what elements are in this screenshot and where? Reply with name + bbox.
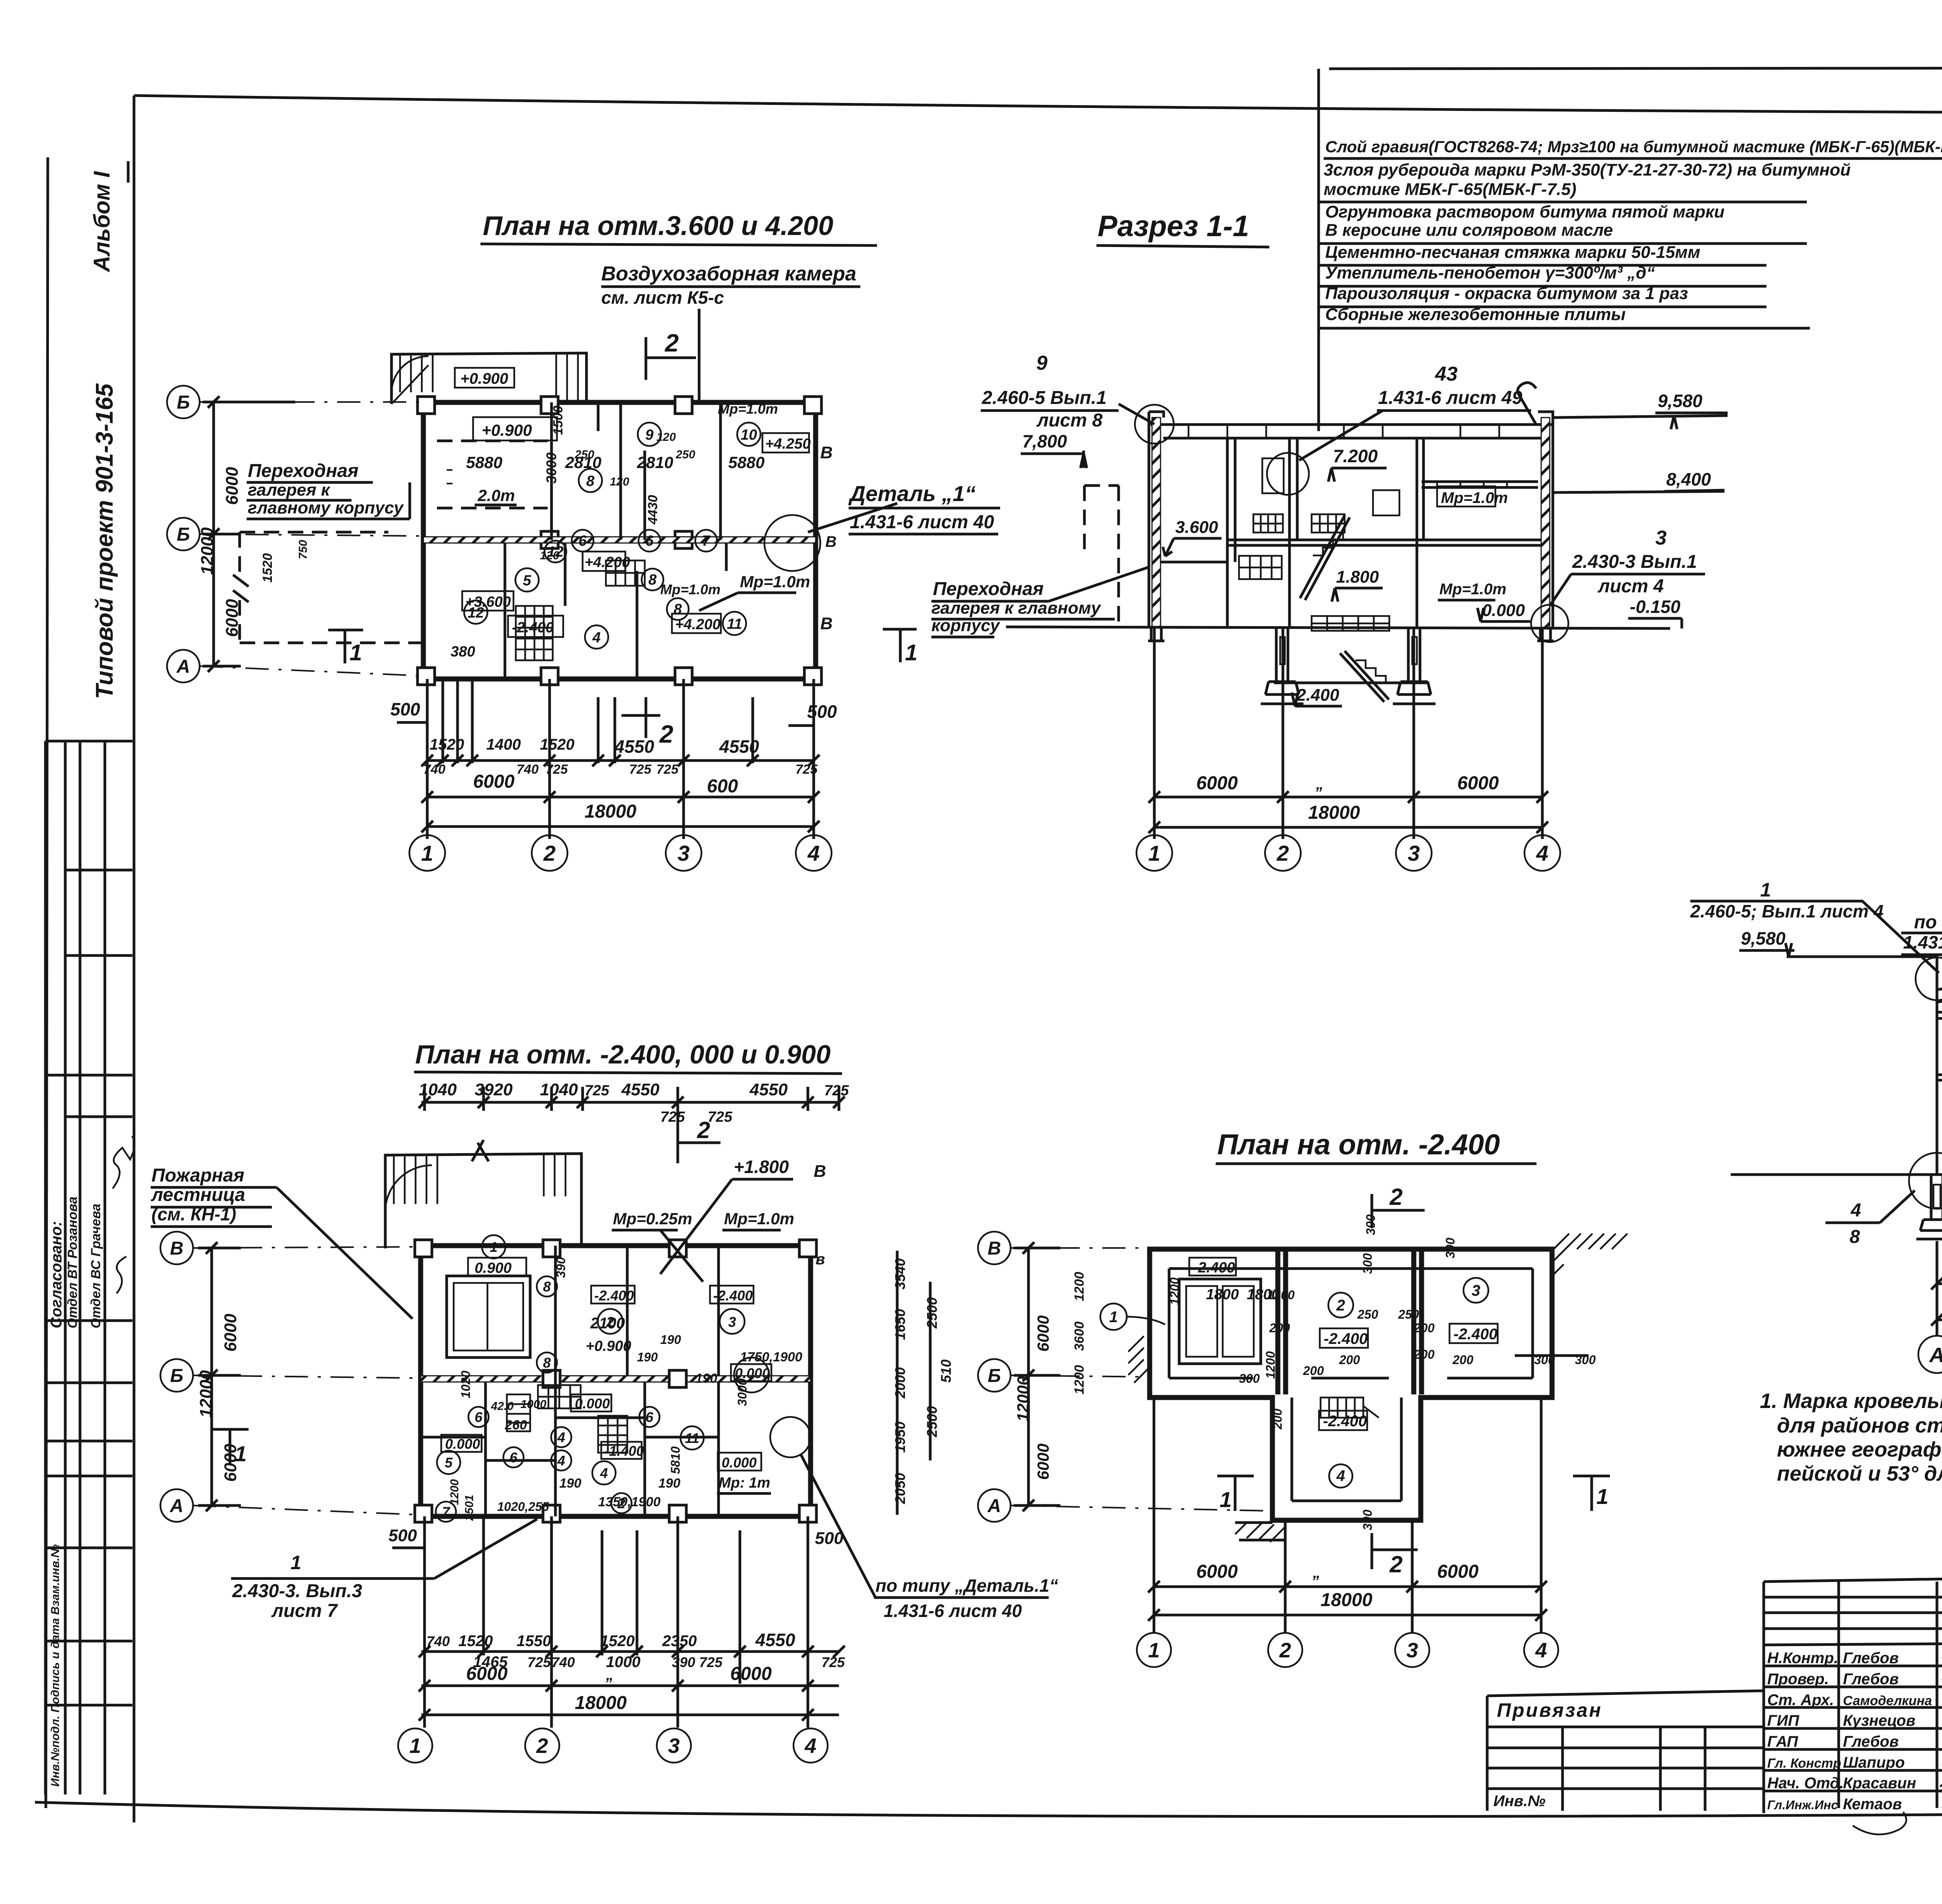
svg-text:Мр: 1т: Мр: 1т xyxy=(719,1475,770,1491)
svg-text:2350: 2350 xyxy=(662,1632,697,1650)
svg-text:750: 750 xyxy=(297,540,310,559)
stair annex xyxy=(392,353,586,404)
svg-text:2.430-3 Вып.1: 2.430-3 Вып.1 xyxy=(1572,552,1697,572)
name rows xyxy=(1764,1666,1942,1791)
svg-text:лист 8: лист 8 xyxy=(1036,410,1103,431)
svg-text:3600: 3600 xyxy=(1072,1321,1087,1351)
section mark 2 top xyxy=(1372,1194,1425,1228)
bottom dims xyxy=(1937,1241,1942,1336)
building walls xyxy=(1937,957,1942,1175)
svg-text:9,580: 9,580 xyxy=(1741,928,1786,949)
svg-text:1200: 1200 xyxy=(1072,1365,1087,1394)
svg-text:пейской и 53° для азиатской: пейской и 53° для азиатской частей СССР xyxy=(1777,1462,1942,1485)
svg-text:300: 300 xyxy=(1361,1509,1375,1530)
svg-text:Мр=0.25т: Мр=0.25т xyxy=(613,1210,692,1228)
svg-text:1020,255: 1020,255 xyxy=(497,1500,550,1514)
svg-text:Гл. Констр: Гл. Констр xyxy=(1767,1756,1841,1771)
svg-text:600: 600 xyxy=(707,776,738,797)
svg-text:Воздухозаборная камера: Воздухозаборная камера xyxy=(601,263,856,285)
roof slab xyxy=(1150,425,1554,438)
svg-text:3: 3 xyxy=(728,1314,736,1330)
svg-text:-2.400: -2.400 xyxy=(1193,1260,1235,1276)
svg-text:Переходная: Переходная xyxy=(248,461,358,481)
svg-text:500: 500 xyxy=(388,1526,417,1545)
svg-text:Б: Б xyxy=(988,1366,1001,1386)
svg-text:Цементно-песчаная стяжка марки: Цементно-песчаная стяжка марки 50-15мм xyxy=(1325,243,1700,262)
svg-text:Б: Б xyxy=(177,392,190,413)
svg-text:18000: 18000 xyxy=(1308,802,1360,823)
svg-text:3: 3 xyxy=(1406,1639,1418,1662)
svg-text:2050: 2050 xyxy=(892,1473,908,1504)
svg-text:6: 6 xyxy=(510,1450,518,1465)
svg-text:725: 725 xyxy=(629,762,652,777)
svg-text:Типовой проект 901-3-165: Типовой проект 901-3-165 xyxy=(91,383,118,699)
svg-text:4: 4 xyxy=(592,630,600,646)
svg-text:Инв.№подл. Подпись и дата Вз: Инв.№подл. Подпись и дата Взам.инв.№ xyxy=(49,1544,62,1787)
right vertical dims xyxy=(897,1251,930,1515)
svg-text:План на отм. -2.400, 000 и 0.9: План на отм. -2.400, 000 и 0.900 xyxy=(415,1040,831,1069)
svg-text:Альбом I: Альбом I xyxy=(89,171,115,273)
svg-text:18000: 18000 xyxy=(575,1693,627,1713)
svg-text:2500: 2500 xyxy=(924,1297,940,1329)
svg-text:740: 740 xyxy=(517,762,539,777)
svg-text:Отдел ВТ Розанова: Отдел ВТ Розанова xyxy=(65,1197,80,1328)
svg-text:2.400: 2.400 xyxy=(1296,686,1340,705)
svg-text:1200: 1200 xyxy=(1168,1277,1182,1305)
room circles xyxy=(1100,1278,1488,1488)
partitions bottom band xyxy=(505,543,726,679)
svg-text:250: 250 xyxy=(675,448,695,461)
svg-text:2: 2 xyxy=(697,1117,710,1143)
svg-text:725: 725 xyxy=(708,1109,733,1125)
svg-text:План на отм. -2.400: План на отм. -2.400 xyxy=(1217,1128,1500,1161)
svg-text:725: 725 xyxy=(656,762,679,777)
svg-text:300: 300 xyxy=(1361,1253,1375,1274)
section mark 2 top xyxy=(678,1126,720,1163)
svg-text:2: 2 xyxy=(543,841,555,865)
svg-text:2000: 2000 xyxy=(892,1367,908,1399)
svg-text:390: 390 xyxy=(672,1654,695,1670)
svg-text:4: 4 xyxy=(600,1465,608,1481)
svg-text:200: 200 xyxy=(1339,1353,1360,1367)
column squares xyxy=(418,397,435,414)
svg-text:Переходная: Переходная xyxy=(933,579,1044,599)
svg-text:500: 500 xyxy=(815,1529,844,1548)
svg-text:8: 8 xyxy=(648,572,657,588)
svg-text:500: 500 xyxy=(390,699,420,719)
svg-text:3: 3 xyxy=(668,1734,680,1758)
svg-text:-2.400: -2.400 xyxy=(1453,1326,1497,1343)
spec text block xyxy=(1319,69,1942,431)
T walls xyxy=(1150,1249,1552,1520)
svg-text:+1.800: +1.800 xyxy=(734,1157,789,1177)
svg-text:Сборные железобетонные плиты: Сборные железобетонные плиты xyxy=(1325,305,1625,324)
svg-text:250: 250 xyxy=(1398,1307,1419,1321)
svg-text:6000: 6000 xyxy=(466,1664,508,1684)
svg-text:3: 3 xyxy=(1408,841,1420,865)
svg-text:+0.900: +0.900 xyxy=(460,370,508,387)
svg-text:Шапиро: Шапиро xyxy=(1843,1754,1905,1771)
svg-text:1400: 1400 xyxy=(486,736,521,753)
svg-text:2: 2 xyxy=(1336,1297,1345,1314)
basement stair xyxy=(1312,616,1389,631)
partitions xyxy=(486,1246,719,1516)
svg-text:1200: 1200 xyxy=(448,1479,461,1505)
svg-text:2501: 2501 xyxy=(463,1495,476,1521)
svg-text:1: 1 xyxy=(1596,1484,1608,1509)
bottom dimensions xyxy=(427,679,814,839)
svg-text:1: 1 xyxy=(905,640,917,665)
svg-text:Мр=1.0т: Мр=1.0т xyxy=(740,573,810,591)
svg-text:190: 190 xyxy=(660,1333,681,1347)
bottom dims xyxy=(1154,1398,1541,1633)
svg-text:1.431-6 лист 49: 1.431-6 лист 49 xyxy=(1378,388,1523,408)
svg-text:4550: 4550 xyxy=(621,1080,660,1099)
svg-text:Глебов: Глебов xyxy=(1843,1733,1898,1750)
detail callout xyxy=(764,515,820,571)
svg-text:3.600: 3.600 xyxy=(1175,518,1218,537)
svg-text:42.0: 42.0 xyxy=(491,1400,514,1413)
svg-text:1.431-6 лист 40: 1.431-6 лист 40 xyxy=(884,1601,1022,1621)
svg-text:200: 200 xyxy=(1270,1408,1284,1430)
svg-text:„: „ xyxy=(1312,1564,1321,1581)
main stamp outline xyxy=(1764,1570,1942,1582)
svg-text:7,800: 7,800 xyxy=(1022,431,1067,451)
svg-text:-2.400: -2.400 xyxy=(1324,1330,1368,1347)
stair block bottom-left xyxy=(516,606,553,660)
svg-text:0.000: 0.000 xyxy=(1482,601,1525,620)
left axis xyxy=(160,1232,193,1522)
svg-text:200: 200 xyxy=(1303,1364,1324,1378)
svg-text:8: 8 xyxy=(543,1355,551,1371)
svg-text:1: 1 xyxy=(1109,1309,1118,1326)
stair annex xyxy=(385,1154,581,1248)
svg-text:4: 4 xyxy=(1536,841,1548,865)
svg-text:8: 8 xyxy=(543,1279,551,1295)
svg-text:1200: 1200 xyxy=(1263,1351,1277,1379)
svg-text:3слоя рубероида марки РэМ-350(: 3слоя рубероида марки РэМ-350(ТУ-21-27-3… xyxy=(1324,160,1851,179)
svg-text:В: В xyxy=(820,443,833,462)
svg-text:-2.400: -2.400 xyxy=(713,1288,753,1304)
small dims inside xyxy=(448,1257,802,1521)
hatch patches xyxy=(1552,1234,1627,1276)
svg-text:725: 725 xyxy=(660,1109,685,1125)
svg-text:В: В xyxy=(170,1238,184,1259)
svg-text:190: 190 xyxy=(637,1350,658,1364)
note text xyxy=(1760,1389,1942,1485)
svg-text:190: 190 xyxy=(695,1371,717,1386)
svg-text:Мр=1.0т: Мр=1.0т xyxy=(1439,581,1506,598)
svg-text:4: 4 xyxy=(1850,1200,1861,1221)
ground line xyxy=(1006,627,1670,628)
svg-text:3540: 3540 xyxy=(892,1258,908,1290)
svg-text:Кузнецов: Кузнецов xyxy=(1843,1712,1916,1729)
svg-text:190: 190 xyxy=(559,1476,581,1491)
svg-text:260: 260 xyxy=(505,1418,527,1432)
plan bottom-left xyxy=(151,1040,1058,1763)
svg-text:3: 3 xyxy=(677,841,689,865)
svg-text:4550: 4550 xyxy=(719,736,759,757)
level boxes xyxy=(473,417,557,440)
svg-text:200: 200 xyxy=(1269,1321,1290,1335)
room dims texts xyxy=(451,401,778,660)
svg-text:Красавин: Красавин xyxy=(1843,1775,1916,1792)
basement floor xyxy=(1274,682,1429,684)
svg-text:по типу „Деталь.1“: по типу „Деталь.1“ xyxy=(875,1575,1058,1596)
svg-text:1350,1900: 1350,1900 xyxy=(598,1495,661,1509)
svg-text:+0.900: +0.900 xyxy=(482,421,532,439)
svg-text:Ст. Арх.: Ст. Арх. xyxy=(1767,1692,1834,1709)
mid wall xyxy=(423,537,816,543)
svg-text:6: 6 xyxy=(646,1409,654,1425)
svg-text:1200: 1200 xyxy=(1267,1288,1295,1302)
svg-text:2.430-3. Вып.3: 2.430-3. Вып.3 xyxy=(232,1581,362,1601)
svg-text:6000: 6000 xyxy=(221,1314,240,1352)
building xyxy=(421,1246,811,1516)
svg-text:А: А xyxy=(170,1496,184,1516)
svg-text:740: 740 xyxy=(552,1654,575,1670)
svg-text:2: 2 xyxy=(536,1734,548,1758)
svg-text:Пожарная: Пожарная xyxy=(151,1165,244,1186)
svg-text:Гл.Инж.Инс: Гл.Инж.Инс xyxy=(1767,1798,1838,1812)
section mark 2 bottom xyxy=(621,697,660,738)
svg-text:0.000: 0.000 xyxy=(445,1436,480,1452)
signatures xyxy=(113,1136,134,1189)
svg-text:Самоделкина: Самоделкина xyxy=(1843,1693,1932,1708)
svg-text:1500: 1500 xyxy=(551,406,566,435)
small dims xyxy=(1168,1214,1596,1530)
svg-text:Разрез 1-1: Разрез 1-1 xyxy=(1098,210,1249,243)
svg-text:Мр=1.0т: Мр=1.0т xyxy=(1441,489,1508,506)
svg-text:см. лист К5-с: см. лист К5-с xyxy=(601,287,724,308)
svg-text:1550: 1550 xyxy=(517,1632,551,1650)
svg-text:250: 250 xyxy=(1357,1307,1378,1321)
svg-text:-2.400: -2.400 xyxy=(594,1288,634,1304)
svg-text:18000: 18000 xyxy=(585,801,637,822)
svg-text:1: 1 xyxy=(291,1552,301,1573)
svg-text:1800: 1800 xyxy=(1206,1286,1239,1303)
svg-text:380: 380 xyxy=(451,644,475,660)
svg-text:3: 3 xyxy=(1472,1282,1480,1299)
svg-text:6: 6 xyxy=(578,533,587,549)
svg-text:4550: 4550 xyxy=(749,1080,788,1099)
svg-text:по типу 4: по типу 4 xyxy=(1914,912,1942,933)
svg-text:ГИП: ГИП xyxy=(1767,1712,1799,1729)
svg-text:4: 4 xyxy=(557,1429,565,1445)
svg-text:Провер.: Провер. xyxy=(1767,1671,1829,1688)
svg-text:2100: 2100 xyxy=(590,1315,625,1332)
interior columns xyxy=(1227,438,1417,627)
svg-text:Н.Контр.: Н.Контр. xyxy=(1767,1650,1838,1667)
svg-text:2.0т: 2.0т xyxy=(477,486,515,505)
svg-text:Б: Б xyxy=(177,524,190,545)
ground line xyxy=(1731,1173,1942,1176)
svg-text:4550: 4550 xyxy=(614,736,654,757)
section mark 2 bottom xyxy=(1372,1533,1418,1569)
svg-text:2: 2 xyxy=(1279,1639,1291,1662)
svg-text:6000: 6000 xyxy=(1457,773,1499,794)
svg-text:южнее географической широты: южнее географической широты 50° для евро… xyxy=(1777,1438,1942,1461)
svg-text:2: 2 xyxy=(665,329,679,357)
svg-text:5810: 5810 xyxy=(668,1446,682,1474)
svg-text:3000: 3000 xyxy=(735,1378,749,1406)
svg-text:9: 9 xyxy=(645,427,653,443)
svg-text:12: 12 xyxy=(547,544,564,560)
svg-text:-2.400: -2.400 xyxy=(1323,1413,1367,1430)
left thin rows xyxy=(1764,1597,1942,1629)
svg-text:В: В xyxy=(820,614,833,633)
svg-text:Пароизоляция - окраска битумом: Пароизоляция - окраска битумом за 1 раз xyxy=(1325,284,1688,303)
svg-text:200: 200 xyxy=(1452,1353,1474,1367)
privyazan box xyxy=(1487,1691,1764,1811)
svg-text:Утеплитель-пенобетон γ=300º/м³: Утеплитель-пенобетон γ=300º/м³ „д“ xyxy=(1325,263,1655,282)
svg-text:300: 300 xyxy=(1239,1371,1260,1385)
svg-text:4550: 4550 xyxy=(755,1630,795,1650)
svg-text:„: „ xyxy=(1316,776,1324,793)
svg-text:А: А xyxy=(176,656,190,677)
svg-text:1040: 1040 xyxy=(540,1080,578,1099)
svg-text:-2.400: -2.400 xyxy=(512,620,554,636)
axis circles bottom xyxy=(409,835,832,871)
svg-text:в: в xyxy=(816,1251,825,1268)
svg-text:6000: 6000 xyxy=(1437,1561,1479,1582)
svg-text:5880: 5880 xyxy=(466,453,502,472)
svg-text:-0.150: -0.150 xyxy=(1630,597,1681,617)
section 1-1 xyxy=(931,210,1728,871)
upper beams xyxy=(1422,482,1538,487)
left axis xyxy=(978,1232,1011,1522)
svg-text:мостике МБК-Г-65(МБК-Г-7.5): мостике МБК-Г-65(МБК-Г-7.5) xyxy=(1324,180,1577,199)
tanks room1 xyxy=(1179,1279,1261,1364)
svg-text:6000: 6000 xyxy=(1196,1561,1238,1582)
svg-text:1020: 1020 xyxy=(459,1371,473,1398)
svg-text:Глебов: Глебов xyxy=(1843,1650,1898,1667)
svg-text:„: „ xyxy=(606,1666,614,1683)
svg-text:1520: 1520 xyxy=(540,736,574,753)
svg-text:0.000: 0.000 xyxy=(722,1455,757,1471)
svg-text:В: В xyxy=(988,1238,1001,1259)
svg-text:Отдел ВС Грачева: Отдел ВС Грачева xyxy=(89,1204,103,1328)
svg-text:1: 1 xyxy=(421,841,433,865)
svg-text:500: 500 xyxy=(807,701,837,722)
svg-text:5: 5 xyxy=(523,573,531,589)
title block xyxy=(1487,1570,1942,1837)
svg-text:1000: 1000 xyxy=(520,1398,546,1411)
left wall xyxy=(1152,418,1161,627)
svg-text:9: 9 xyxy=(1036,352,1048,374)
svg-text:Б: Б xyxy=(170,1366,183,1386)
level boxes xyxy=(1189,1258,1236,1276)
svg-text:0.900: 0.900 xyxy=(475,1260,512,1276)
svg-text:1650: 1650 xyxy=(892,1309,908,1340)
svg-text:200: 200 xyxy=(1413,1321,1435,1335)
svg-text:300: 300 xyxy=(1364,1214,1378,1235)
svg-text:6000: 6000 xyxy=(730,1664,772,1684)
svg-text:Слой гравия(ГОСТ8268-74; Мрз≥1: Слой гравия(ГОСТ8268-74; Мрз≥100 на биту… xyxy=(1325,137,1942,156)
stairs xyxy=(1300,515,1389,702)
interior cross walls xyxy=(1278,1249,1422,1394)
svg-text:4: 4 xyxy=(807,841,820,865)
svg-text:1: 1 xyxy=(1148,841,1160,865)
svg-text:8: 8 xyxy=(586,473,595,489)
left axis xyxy=(167,386,200,682)
svg-text:1. Марка кровельной мастик: 1. Марка кровельной мастики В скобках да… xyxy=(1760,1389,1942,1413)
svg-text:510: 510 xyxy=(938,1359,954,1383)
floor 4.200 level xyxy=(1937,1075,1942,1080)
svg-text:250: 250 xyxy=(574,448,594,461)
footings xyxy=(1916,1175,1942,1241)
svg-text:4: 4 xyxy=(1336,1467,1345,1485)
stair + shaft blocks xyxy=(538,1385,581,1408)
svg-text:2500: 2500 xyxy=(924,1406,940,1438)
svg-text:8: 8 xyxy=(673,601,682,618)
svg-text:+4.200: +4.200 xyxy=(585,554,630,571)
dashed crane lines room1 xyxy=(437,441,548,508)
svg-text:1: 1 xyxy=(1760,879,1771,901)
svg-text:18000: 18000 xyxy=(1321,1590,1373,1610)
svg-text:Огрунтовка раствором битума пя: Огрунтовка раствором битума пятой марки xyxy=(1325,202,1724,221)
svg-text:4: 4 xyxy=(557,1453,565,1469)
svg-text:5880: 5880 xyxy=(728,453,764,472)
svg-text:5: 5 xyxy=(445,1455,453,1471)
svg-text:200: 200 xyxy=(1413,1347,1435,1361)
svg-text:Мр=1.0т: Мр=1.0т xyxy=(718,401,778,417)
inner storage room xyxy=(447,1276,530,1358)
svg-text:В: В xyxy=(814,1162,826,1181)
partitions top band xyxy=(552,402,720,540)
svg-text:1520: 1520 xyxy=(260,553,275,583)
svg-text:ГАП: ГАП xyxy=(1767,1733,1798,1750)
svg-text:43: 43 xyxy=(1435,363,1458,385)
svg-text:1.431-6 лист 40: 1.431-6 лист 40 xyxy=(850,512,994,533)
svg-text:1: 1 xyxy=(350,640,362,665)
svg-text:1.431-6 лист 55: 1.431-6 лист 55 xyxy=(1903,932,1942,952)
svg-text:лист 7: лист 7 xyxy=(271,1601,338,1621)
svg-text:12000: 12000 xyxy=(197,1370,216,1418)
svg-text:Нач. Отд.: Нач. Отд. xyxy=(1767,1775,1844,1792)
svg-text:1950: 1950 xyxy=(892,1422,908,1453)
top dims xyxy=(419,1080,849,1125)
section mark 1 right xyxy=(883,629,917,662)
section mark 1 left xyxy=(328,630,363,663)
gallery dashed xyxy=(240,532,423,643)
svg-text:725: 725 xyxy=(824,1083,849,1099)
svg-text:План на отм.3.600 и 4.200: План на отм.3.600 и 4.200 xyxy=(483,211,834,241)
svg-text:В керосине или соляровом масле: В керосине или соляровом масле xyxy=(1325,221,1613,240)
svg-text:300: 300 xyxy=(1443,1237,1457,1258)
section marks 1 xyxy=(1217,1476,1254,1511)
svg-text:2.460-5; Вып.1 лист 4: 2.460-5; Вып.1 лист 4 xyxy=(1690,901,1883,921)
svg-text:190: 190 xyxy=(658,1476,680,1491)
room circles xyxy=(464,423,760,649)
svg-text:1520: 1520 xyxy=(430,736,464,753)
svg-text:1.800: 1.800 xyxy=(1336,567,1379,587)
roof arch xyxy=(1937,979,1942,1002)
vent shaft grid xyxy=(606,560,645,586)
svg-text:2: 2 xyxy=(1276,841,1289,865)
svg-text:3920: 3920 xyxy=(475,1080,513,1099)
svg-text:1: 1 xyxy=(235,1441,247,1466)
svg-text:4: 4 xyxy=(804,1734,816,1758)
svg-text:3000: 3000 xyxy=(543,453,559,484)
svg-text:1: 1 xyxy=(490,1239,498,1255)
plan -2.400 xyxy=(978,1128,1627,1667)
svg-text:6000: 6000 xyxy=(223,467,242,505)
svg-text:2: 2 xyxy=(1389,1551,1403,1577)
svg-text:6000: 6000 xyxy=(1034,1316,1052,1352)
svg-text:6: 6 xyxy=(645,533,654,549)
section mark 2 top xyxy=(646,337,696,380)
